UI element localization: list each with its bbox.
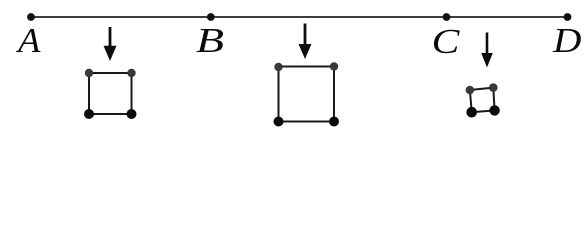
svg-text:D: D [552, 21, 582, 60]
svg-text:C: C [432, 22, 461, 61]
svg-text:A: A [16, 21, 41, 60]
svg-text:B: B [196, 21, 224, 60]
